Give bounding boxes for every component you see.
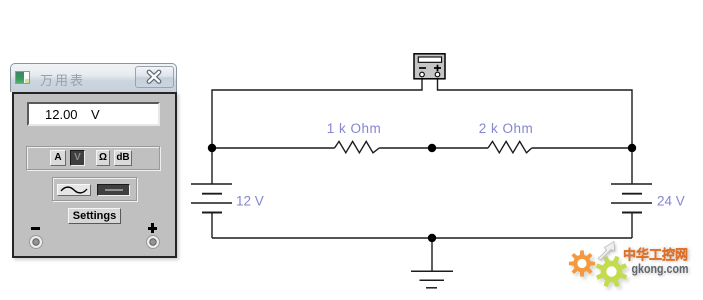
plus terminal jack xyxy=(145,234,161,250)
window close button xyxy=(135,66,174,88)
watermark logo gkong xyxy=(555,230,703,300)
button AC (sine) xyxy=(57,184,91,196)
button V (voltage, pressed) xyxy=(70,150,85,166)
Settings button xyxy=(68,208,121,224)
button Ohm xyxy=(96,150,110,166)
wire R1 to node B xyxy=(379,147,432,149)
resistor R2 xyxy=(488,141,532,152)
waveform group box xyxy=(52,177,137,201)
wire battery V2 bottom lead xyxy=(631,213,633,239)
minus terminal label xyxy=(31,227,40,230)
resistor R1 xyxy=(335,141,380,152)
svg-text:2 k Ohm: 2 k Ohm xyxy=(479,121,534,136)
wire middle rail node A to R1 xyxy=(212,147,335,149)
svg-text:12 V: 12 V xyxy=(236,194,264,209)
window title bar xyxy=(10,63,177,92)
green gear xyxy=(596,256,627,287)
wire ground stub xyxy=(431,238,433,271)
meter display reading xyxy=(27,106,160,108)
multimeter XMM1 symbol xyxy=(414,54,445,79)
window icon xyxy=(15,71,30,84)
orange gear xyxy=(569,250,595,276)
gear shadows xyxy=(571,253,629,290)
arrow shadow xyxy=(599,243,616,261)
arrow xyxy=(598,242,615,261)
button dB xyxy=(114,150,132,166)
plus terminal label xyxy=(148,227,157,230)
button A (current) xyxy=(50,150,66,166)
button DC (pressed) xyxy=(97,184,130,196)
node A left junction xyxy=(208,144,216,152)
node B middle junction xyxy=(428,144,436,152)
wire node B to R2 xyxy=(432,147,488,149)
window title text xyxy=(40,70,85,89)
wire bottom rail xyxy=(212,237,632,239)
svg-text:1 k Ohm: 1 k Ohm xyxy=(327,121,382,136)
wire battery V1 top lead xyxy=(211,148,213,184)
wire R2 to node C xyxy=(532,147,632,149)
wire battery V2 top lead xyxy=(631,148,633,184)
meter display xyxy=(27,102,160,126)
orange gear hole xyxy=(577,259,586,268)
node C right junction xyxy=(628,144,636,152)
battery V1 xyxy=(191,184,232,213)
mode button group box xyxy=(26,146,160,170)
wire top-right segment (meter + lead to right rail) xyxy=(438,79,633,148)
svg-text:中华工控网: 中华工控网 xyxy=(623,246,688,262)
wire battery V1 bottom lead xyxy=(211,213,213,239)
green gear hole xyxy=(606,266,616,276)
multimeter instrument panel window xyxy=(0,0,703,2)
wire top-left segment (meter - lead to left rail) xyxy=(212,79,422,148)
svg-text:gkong.com: gkong.com xyxy=(632,261,689,276)
window body xyxy=(12,92,177,258)
ground xyxy=(411,271,453,288)
node D bottom junction xyxy=(428,234,436,242)
svg-text:24 V: 24 V xyxy=(657,194,685,209)
battery V2 xyxy=(611,184,652,213)
minus terminal jack xyxy=(28,234,44,250)
